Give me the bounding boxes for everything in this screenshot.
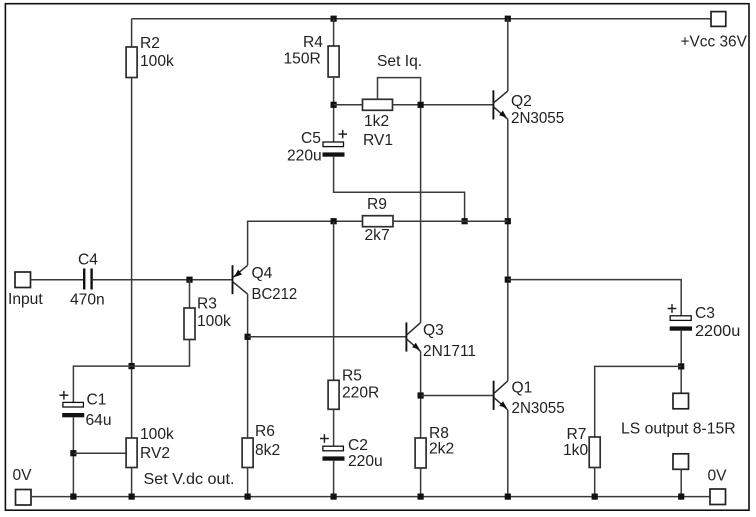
terminal +Vcc <box>711 12 726 27</box>
svg-text:Q1: Q1 <box>512 380 533 397</box>
wire: R9 right to Q2 emitter column <box>393 220 508 222</box>
svg-text:64u: 64u <box>86 412 112 429</box>
junction: RV2 on rail <box>129 494 135 500</box>
resistor R2 <box>126 47 137 78</box>
svg-text:Input: Input <box>8 291 43 308</box>
junction: R8 on rail <box>418 494 424 500</box>
wire: Q4 collector down to R6 <box>247 294 249 438</box>
wire: Q3 emitter down to R8 <box>420 351 422 438</box>
junction: R4/RV1/C5 node <box>331 102 337 108</box>
junction: Q1 base takeoff <box>418 392 424 398</box>
wire: R8 bottom to rail <box>420 468 422 497</box>
svg-text:C2: C2 <box>348 437 368 454</box>
svg-text:+Vcc 36V: +Vcc 36V <box>681 34 748 51</box>
wire: output node to C3 <box>508 280 681 316</box>
wire: R5 bottom to C2 <box>333 409 335 446</box>
svg-text:RV2: RV2 <box>140 445 170 462</box>
wire: R7 bottom to rail <box>594 468 596 497</box>
wire: R6 bottom to rail <box>247 468 249 497</box>
svg-text:150R: 150R <box>284 51 321 68</box>
terminal 0V left <box>16 490 32 506</box>
wire: LS bottom terminal to rail <box>680 469 682 496</box>
svg-text:Set Iq.: Set Iq. <box>377 53 422 70</box>
wire: node to RV1 left <box>334 104 363 106</box>
svg-text:R4: R4 <box>303 34 323 51</box>
junction: output node on emitter column <box>505 277 511 283</box>
junction: R5 column on R9 wire <box>331 218 337 224</box>
junction: Q3 base takeoff <box>245 334 251 340</box>
wire: Q1 emitter to rail <box>507 410 509 497</box>
svg-text:R5: R5 <box>342 368 362 385</box>
wire: input to C4 <box>31 279 84 281</box>
junction: C1 column on rail <box>70 494 76 500</box>
wire: bottom 0V rail <box>31 496 710 498</box>
svg-text:1k0: 1k0 <box>563 442 588 459</box>
wire: R4 bottom to C5 <box>333 77 335 142</box>
terminal Input <box>15 272 31 288</box>
resistor R4 <box>328 46 339 77</box>
resistor R6 8k2 <box>242 438 253 468</box>
resistor R7 1k0 <box>589 437 600 468</box>
resistor R9 2k7 <box>363 216 394 227</box>
svg-text:Q3: Q3 <box>423 322 444 339</box>
svg-text:R8: R8 <box>429 425 449 442</box>
transistor Q4 BC212 <box>232 265 234 294</box>
svg-text:100k: 100k <box>140 426 174 443</box>
junction: LS on rail <box>678 494 684 500</box>
svg-text:220u: 220u <box>287 148 322 165</box>
junction: R3 top on input wire <box>186 277 192 283</box>
svg-text:2N1711: 2N1711 <box>423 343 476 360</box>
svg-text:2k2: 2k2 <box>429 441 454 458</box>
wire: C4 to Q4 base (crosses R2 column) <box>93 279 232 281</box>
wire: R4 top column <box>333 19 335 46</box>
junction: RV2 wiper on C1 column <box>70 450 76 456</box>
junction: R7 on rail <box>592 494 598 500</box>
transistor Q2 2N3055 <box>492 90 494 119</box>
svg-text:C4: C4 <box>78 252 98 269</box>
wire: RV2 bottom to rail <box>131 468 133 497</box>
junction: R7/LS node <box>678 363 684 369</box>
junction: R3-return wire on R2 column <box>129 363 135 369</box>
junction: Q1 emitter on rail <box>505 494 511 500</box>
junction: R9 wire on emitter column <box>505 218 511 224</box>
svg-text:R9: R9 <box>367 196 387 213</box>
svg-text:R2: R2 <box>140 35 160 52</box>
resistor R8 2k2 <box>415 438 426 468</box>
svg-text:C5: C5 <box>301 130 321 147</box>
wire: Q3 base wire <box>248 336 407 338</box>
terminal 0V right <box>710 489 726 505</box>
wire: C2 bottom to rail <box>333 461 335 497</box>
svg-text:220u: 220u <box>348 453 383 470</box>
wire: C1 bottom to 0V rail <box>72 417 74 496</box>
terminal LS output top <box>673 393 689 409</box>
resistor R5 220R <box>328 380 339 409</box>
junction: C5 drop on R9 wire <box>462 218 468 224</box>
junction: RV1 wiper on Q2 base wire <box>418 102 424 108</box>
svg-text:R6: R6 <box>255 423 275 440</box>
wire: LS node left to R7 <box>595 366 682 437</box>
svg-text:C1: C1 <box>87 392 107 409</box>
wire: R3 bottom return to R2 column and C1 <box>73 340 189 403</box>
svg-text:RV1: RV1 <box>363 132 393 149</box>
svg-text:2200u: 2200u <box>695 323 740 340</box>
wire: R2 top column <box>131 19 133 47</box>
potentiometer RV2 100k <box>126 438 137 468</box>
transistor Q3 2N1711 <box>405 322 407 351</box>
wire: RV2 wiper <box>73 452 126 454</box>
svg-text:0V: 0V <box>13 467 33 484</box>
svg-text:1k2: 1k2 <box>364 113 389 130</box>
wire: Q2 emitter column down to Q1 collector <box>507 119 509 381</box>
wire: R9 row from Q4 emitter corner <box>248 221 363 265</box>
svg-text:2N3055: 2N3055 <box>511 110 565 127</box>
svg-text:0V: 0V <box>708 468 728 485</box>
svg-text:R7: R7 <box>567 426 587 443</box>
junction: Q2 collector on rail <box>505 16 511 22</box>
svg-text:LS output 8-15R: LS output 8-15R <box>621 421 736 438</box>
transistor Q1 2N3055 <box>493 381 495 410</box>
wire: RV1 right to Q2 base <box>393 104 494 106</box>
wire: R9 node down to R5 <box>333 221 335 380</box>
svg-text:R3: R3 <box>197 296 217 313</box>
wire: Q1 base wire <box>421 395 494 397</box>
svg-text:100k: 100k <box>197 313 231 330</box>
svg-text:BC212: BC212 <box>252 286 298 303</box>
resistor R3 100k <box>189 280 191 308</box>
potentiometer RV1 1k2 <box>363 99 393 110</box>
junction: R4 top on rail <box>331 16 337 22</box>
wire: RV1 wiper loop and down to Q3 collector <box>378 78 421 323</box>
svg-text:Set V.dc out.: Set V.dc out. <box>144 471 235 488</box>
wire: Q2 collector to top rail <box>507 19 509 91</box>
svg-text:220R: 220R <box>342 385 379 402</box>
svg-text:C3: C3 <box>695 305 715 322</box>
svg-text:100k: 100k <box>140 53 174 70</box>
wire: C5 bottom drop to R9 net <box>334 157 465 222</box>
svg-text:8k2: 8k2 <box>255 442 280 459</box>
svg-text:Q2: Q2 <box>511 93 532 110</box>
wire: C3 bottom to LS node <box>680 331 682 394</box>
svg-text:2N3055: 2N3055 <box>512 400 566 417</box>
terminal LS output bottom <box>673 454 689 470</box>
svg-text:Q4: Q4 <box>252 265 273 282</box>
wire: top +Vcc rail <box>132 18 711 20</box>
wire: R2 bottom down to RV2 (crosses input wire) <box>131 78 133 439</box>
junction: C2 on rail <box>331 494 337 500</box>
junction: R6 on rail <box>245 494 251 500</box>
svg-text:470n: 470n <box>70 292 105 309</box>
svg-text:2k7: 2k7 <box>365 227 390 244</box>
